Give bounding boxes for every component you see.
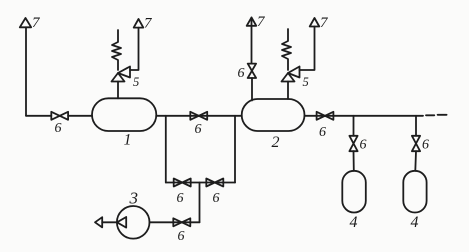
- svg-text:7: 7: [32, 15, 41, 31]
- svg-text:6: 6: [178, 229, 185, 244]
- svg-text:5: 5: [133, 75, 139, 89]
- vessel 2: [242, 99, 305, 131]
- tank 4 (right): [403, 171, 426, 213]
- wire: right tank drop: [415, 116, 417, 136]
- wire: relief outlet to vent riser: [300, 27, 315, 71]
- pump 3: [117, 206, 150, 239]
- vent arrow 7 (far left): [20, 18, 31, 27]
- svg-text:7: 7: [257, 14, 266, 30]
- vent arrow 7 (above vessel 2): [310, 18, 320, 27]
- svg-text:7: 7: [320, 15, 329, 31]
- wire: vessel 2 inlet riser from arrow 7: [251, 18, 253, 64]
- svg-text:7: 7: [144, 16, 153, 32]
- valve 6 (bypass left): [174, 179, 191, 187]
- valve 6 (vessel 1 inlet): [51, 112, 68, 120]
- valve 6 (right tank, vertical): [412, 136, 420, 151]
- valve 6 (vessel 2 outlet): [317, 112, 334, 120]
- spring (vessel 2 relief): [282, 29, 291, 70]
- valve 6 (vessel 2 top, vertical): [248, 64, 256, 78]
- svg-text:2: 2: [272, 134, 280, 151]
- wire: valve to vessel 1: [68, 115, 92, 117]
- svg-text:6: 6: [360, 138, 367, 153]
- arrow (pump suction, pointing left): [95, 217, 102, 227]
- wire: bypass left drop: [165, 116, 167, 183]
- svg-text:4: 4: [350, 214, 358, 231]
- relief valve 5 (vessel 2): [282, 67, 300, 82]
- dashed continuation of main line: [426, 114, 447, 117]
- tank 4 (left): [342, 171, 366, 213]
- vent arrow 7 (vessel 2 inlet, pointing up): [247, 18, 257, 26]
- wire: bypass bottom line: [166, 182, 235, 184]
- wire: valve to vessel 2 top: [251, 78, 253, 101]
- svg-text:6: 6: [177, 191, 184, 206]
- wire: left vent riser: [25, 27, 27, 116]
- valve 6 (pump discharge): [173, 218, 190, 226]
- valve 6 (bypass right): [206, 179, 223, 187]
- valve 6 (main line between vessels): [190, 112, 207, 120]
- wire: left tank drop: [353, 116, 355, 136]
- svg-text:5: 5: [303, 75, 309, 89]
- valve 6 (left tank, vertical): [349, 136, 357, 151]
- svg-text:6: 6: [319, 125, 326, 140]
- wire: vessel 1 to vessel 2 main line: [156, 115, 241, 117]
- svg-text:3: 3: [129, 189, 139, 208]
- wire: relief outlet to vent riser: [130, 28, 139, 70]
- wire: drop from bypass to pump line: [199, 183, 201, 223]
- wire: inlet line to valve 6: [26, 115, 51, 117]
- wire: vessel 2 outlet main line: [305, 115, 424, 117]
- wire: valve to left tank: [353, 151, 355, 171]
- wire: pump suction line: [102, 221, 117, 223]
- spring (vessel 1 relief): [112, 30, 121, 70]
- svg-text:6: 6: [55, 121, 62, 136]
- vent arrow 7 (above vessel 1): [134, 19, 144, 28]
- vessel 1: [92, 98, 156, 131]
- wire: pump discharge line: [150, 221, 200, 223]
- svg-text:6: 6: [422, 138, 429, 153]
- wire: vessel 2 relief riser: [287, 82, 289, 100]
- wire: bypass right drop: [234, 116, 236, 183]
- svg-text:6: 6: [213, 191, 220, 206]
- wire: valve to right tank: [414, 151, 417, 171]
- svg-text:4: 4: [411, 214, 419, 231]
- svg-text:1: 1: [124, 132, 132, 149]
- svg-text:6: 6: [195, 122, 202, 137]
- relief valve 5 (vessel 1): [112, 67, 131, 82]
- svg-text:6: 6: [238, 66, 245, 81]
- wire: vessel 1 relief riser: [117, 82, 119, 99]
